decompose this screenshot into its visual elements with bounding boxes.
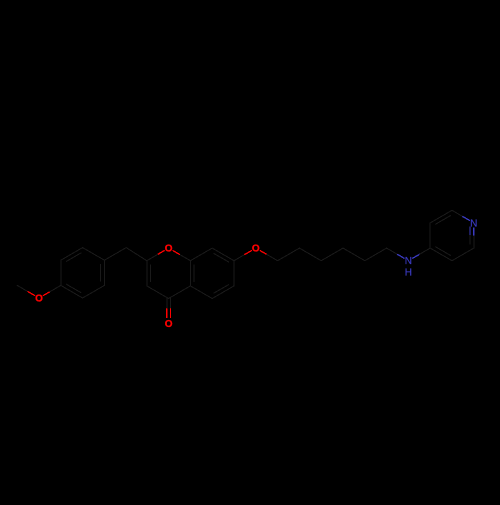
- svg-text:O: O: [165, 244, 173, 255]
- svg-text:O: O: [252, 244, 260, 255]
- hexyl chain O-(CH2)6: [256, 248, 387, 261]
- benzene ring (4-methoxyphenyl): [61, 248, 105, 298]
- pyranone ring of chromen-4-one: [147, 248, 191, 298]
- C4=O ketone double bond: [167, 299, 171, 318]
- ether O7 label: [251, 244, 260, 255]
- bond CH2-NH: [387, 248, 409, 261]
- svg-text:H: H: [405, 268, 412, 279]
- pyridine N label: [469, 218, 478, 229]
- bond NH-pyridine C4: [408, 248, 430, 261]
- benzo ring inner double-bond lines: [194, 254, 228, 294]
- svg-text:O: O: [35, 294, 43, 305]
- benzylic CH2 bridge: [104, 248, 146, 261]
- pyridine inner double-bond lines: [436, 216, 470, 256]
- svg-text:O: O: [165, 319, 173, 330]
- methoxy O label: [34, 293, 43, 304]
- benzene ring inner double-bond lines: [66, 253, 100, 293]
- chromene ring O1 label: [164, 244, 173, 255]
- aryl ether O at position 7: [234, 248, 256, 261]
- methoxy group CH3-O: [17, 285, 61, 298]
- pyridine ring: [430, 210, 474, 260]
- ketone O label: [164, 319, 173, 330]
- C2=C3 double bond inner line: [150, 265, 152, 282]
- svg-text:N: N: [470, 218, 477, 229]
- fused benzo ring: [190, 248, 234, 298]
- amine N-H labels: [404, 256, 413, 267]
- svg-text:N: N: [405, 256, 412, 267]
